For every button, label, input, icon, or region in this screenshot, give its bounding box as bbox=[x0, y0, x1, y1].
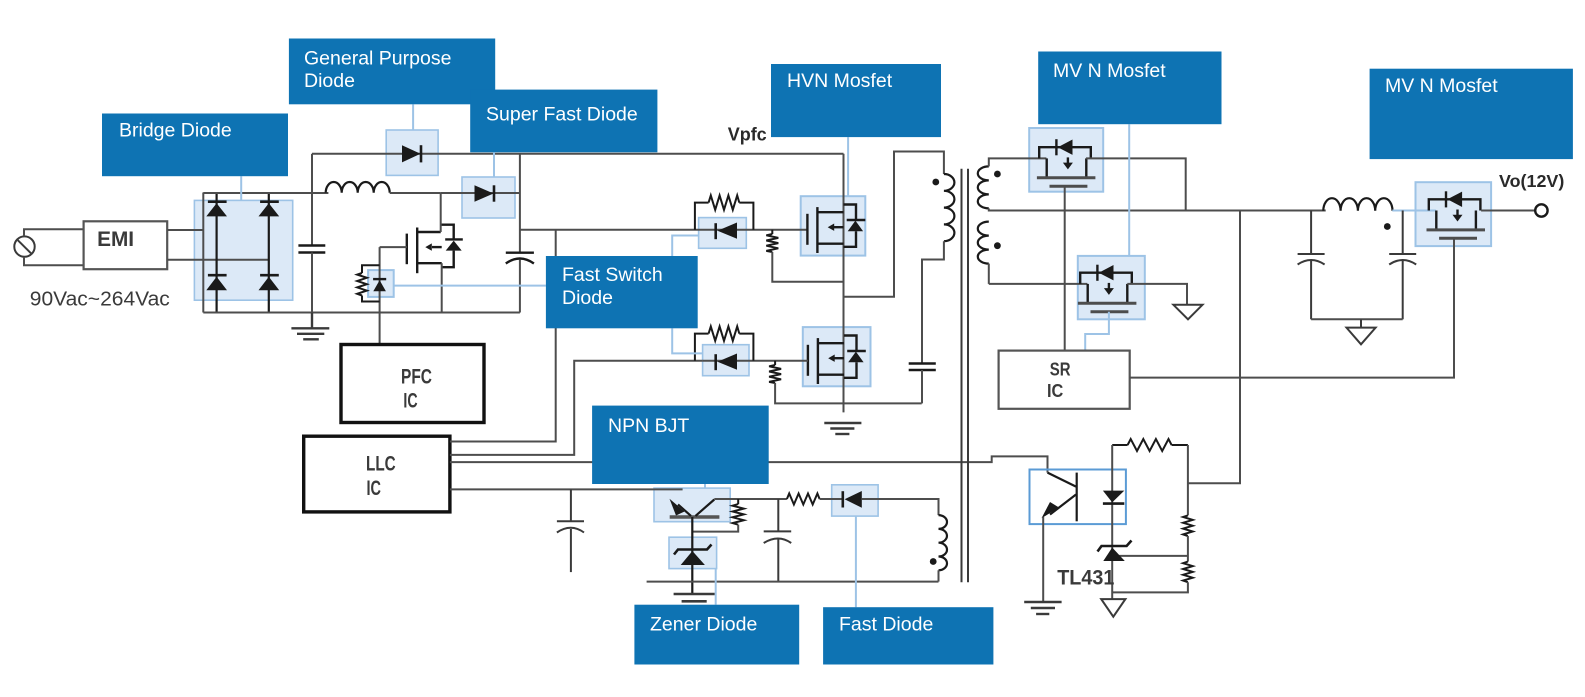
svg-text:Fast Diode: Fast Diode bbox=[839, 614, 933, 636]
bridge leg 1 wire bbox=[216, 193, 218, 313]
TL431 shunt regulator U3 bbox=[1098, 541, 1132, 562]
base-emitter resistor return wire bbox=[692, 525, 738, 532]
leader general purpose diode bbox=[412, 104, 414, 130]
TL431 reference wire bbox=[1119, 555, 1188, 557]
svg-text:PFC: PFC bbox=[401, 364, 432, 388]
callout label Super Fast Diode bbox=[470, 90, 657, 153]
leader zener diode bbox=[715, 569, 717, 605]
super fast diode highlight box bbox=[462, 177, 515, 218]
primary polarity dot bbox=[932, 179, 939, 186]
TL431 ground triangle bbox=[1101, 599, 1125, 617]
SR mosfet Q3 bbox=[1037, 139, 1096, 186]
bridge diode D3 bbox=[206, 275, 227, 290]
SR controller IC box bbox=[999, 351, 1130, 409]
callout label Fast Switch Diode bbox=[546, 256, 698, 328]
callout label Zener Diode bbox=[634, 605, 799, 665]
wire inductor to boost node bbox=[390, 192, 441, 194]
bottom return rail bbox=[203, 312, 520, 314]
output terminal circle bbox=[1535, 204, 1547, 216]
transformer primary winding bbox=[944, 174, 954, 241]
filter cap C1 lower wire bbox=[311, 253, 313, 313]
wire divider bottom to TL431 anode bbox=[1112, 582, 1188, 592]
svg-text:Diode: Diode bbox=[562, 287, 613, 309]
leader fast diode bbox=[855, 516, 857, 607]
svg-text:LLC: LLC bbox=[366, 451, 396, 475]
callout label General Purpose Diode bbox=[289, 39, 495, 105]
NPN collector wire bbox=[714, 498, 787, 500]
SR mosfet Q4 to ground wire bbox=[1127, 284, 1187, 305]
callout label HVN Mosfet bbox=[771, 64, 941, 137]
wire switch node to primary top bbox=[844, 152, 944, 297]
resonant capacitor C4 bbox=[909, 364, 936, 371]
SR mosfet Q3 highlight box bbox=[1029, 128, 1103, 192]
svg-text:Super Fast Diode: Super Fast Diode bbox=[486, 104, 638, 126]
svg-text:NPN BJT: NPN BJT bbox=[608, 415, 689, 437]
zener ground symbol bbox=[674, 594, 715, 601]
secondary lower dot bbox=[994, 242, 1001, 249]
high side gate wire bbox=[520, 229, 808, 231]
optocoupler ground symbol bbox=[1024, 602, 1061, 614]
super fast diode D6 bbox=[475, 185, 495, 201]
svg-text:TL431: TL431 bbox=[1057, 567, 1114, 590]
svg-text:MV N Mosfet: MV N Mosfet bbox=[1385, 75, 1498, 97]
bridge diode D2 bbox=[259, 202, 280, 217]
pfc gate diode highlight box bbox=[368, 270, 394, 297]
LLC controller IC box bbox=[304, 436, 450, 512]
wire primary bottom to resonant cap bbox=[922, 241, 944, 362]
bypass top rail to Vpfc bbox=[312, 153, 844, 155]
callout label MV N Mosfet left bbox=[1038, 52, 1221, 125]
output filter cap C6 bbox=[1389, 211, 1416, 320]
feedback divider wire bbox=[1187, 445, 1189, 515]
resonant capacitor lower wire bbox=[921, 370, 923, 403]
output inductor L2 bbox=[1323, 198, 1392, 211]
general purpose diode D5 bbox=[402, 145, 421, 162]
leader fast switch diode to pfc gate diode bbox=[394, 285, 546, 287]
bridge outer left wire bbox=[202, 193, 204, 313]
callout label Fast Diode bbox=[823, 607, 993, 664]
base-emitter resistor R10 bbox=[733, 499, 744, 525]
HVN mosfet Q2 bbox=[808, 336, 866, 385]
svg-text:IC: IC bbox=[1047, 381, 1063, 401]
high side gate return wire bbox=[772, 252, 843, 282]
leader HVN mosfet bbox=[847, 137, 849, 196]
PFC boost inductor L1 bbox=[326, 182, 390, 193]
general purpose diode highlight box bbox=[386, 130, 438, 175]
svg-text:90Vac~264Vac: 90Vac~264Vac bbox=[30, 289, 170, 311]
fast switch diode D8 bypass resistor R2 bbox=[695, 195, 754, 229]
LLC pin capacitor C3 bbox=[557, 489, 584, 572]
optocoupler LED wire bbox=[1111, 445, 1113, 599]
secondary bottom wire to SR mosfet Q4 bbox=[989, 283, 1088, 285]
secondary winding lower bbox=[978, 222, 989, 264]
fast switch diode D8 bbox=[716, 223, 737, 240]
leader fast switch diode lower bbox=[672, 328, 702, 353]
HVN mosfet Q1 bbox=[807, 205, 865, 254]
PFC mosfet drain wire bbox=[440, 193, 442, 232]
wire EMI to bridge top bbox=[167, 229, 203, 231]
aux winding bbox=[939, 515, 948, 570]
wire boost node to super fast diode to bulk node bbox=[441, 192, 520, 194]
fast switch diode D9 bbox=[716, 354, 737, 371]
feedback divider resistor R8 bbox=[1183, 562, 1193, 583]
bridge diode D4 bbox=[259, 275, 280, 290]
NPN BJT Q7 bbox=[670, 499, 720, 517]
LLC wire 2 to low side gate bbox=[450, 361, 703, 455]
svg-text:MV N Mosfet: MV N Mosfet bbox=[1053, 60, 1166, 82]
PFC gate resistor R1 bbox=[357, 265, 379, 301]
wire AC to EMI bottom bbox=[24, 257, 84, 265]
optocoupler emitter wire bbox=[1042, 517, 1044, 601]
optocoupler LED diode bbox=[1103, 491, 1124, 504]
output mosfet Q5 highlight box bbox=[1416, 182, 1492, 246]
LLC wire 1 to high side gate bbox=[450, 230, 556, 442]
svg-text:Diode: Diode bbox=[304, 70, 355, 92]
output mosfet Q5 bbox=[1427, 191, 1486, 238]
SR mosfet Q3 output wire bbox=[1086, 158, 1186, 210]
SR mosfet Q3 gate wire to SR IC bbox=[1064, 186, 1066, 350]
SR mosfet Q4 bbox=[1078, 265, 1137, 312]
PFC controller IC box bbox=[341, 345, 484, 423]
secondary top wire to SR mosfet Q3 bbox=[989, 158, 1047, 166]
PFC mosfet Q6 bbox=[407, 225, 463, 274]
snubber capacitor C7 bbox=[764, 499, 792, 582]
svg-text:Bridge Diode: Bridge Diode bbox=[119, 120, 232, 142]
svg-text:IC: IC bbox=[367, 476, 382, 500]
leader fast switch diode upper bbox=[672, 236, 698, 257]
half bridge ground symbol bbox=[824, 423, 861, 434]
svg-text:SR: SR bbox=[1050, 360, 1071, 380]
secondary winding upper bbox=[978, 166, 989, 208]
rectified bus top wire with PFC inductor position bbox=[203, 192, 328, 194]
callout label NPN BJT bbox=[592, 406, 769, 484]
half bridge vertical wire bbox=[843, 154, 845, 413]
HVN mosfet Q1 highlight box bbox=[801, 196, 866, 255]
svg-text:IC: IC bbox=[403, 389, 417, 413]
leader super fast diode bbox=[493, 152, 495, 177]
aux return rail bbox=[647, 581, 939, 583]
fast diode D10 bbox=[843, 491, 862, 508]
filter cap C1 bbox=[298, 246, 325, 253]
optocoupler box U2 bbox=[1030, 470, 1126, 525]
low side gate wire bbox=[703, 360, 808, 362]
svg-text:Zener Diode: Zener Diode bbox=[650, 614, 757, 636]
LLC wire 4 to NPN bbox=[450, 488, 683, 490]
wire inductor to output mosfet (blue) bbox=[1392, 210, 1436, 212]
low side gate return wire bbox=[775, 383, 922, 403]
wire fast diode to aux winding bbox=[862, 499, 939, 515]
leader bridge diode bbox=[240, 176, 242, 200]
svg-text:EMI: EMI bbox=[97, 228, 134, 251]
bridge diode D1 bbox=[206, 202, 227, 217]
primary ground symbol bbox=[291, 313, 329, 340]
fast diode highlight box bbox=[832, 485, 878, 516]
output wire to terminal bbox=[1481, 210, 1535, 212]
bulk capacitor C2 bbox=[506, 253, 534, 264]
feedback divider resistor R7 bbox=[1183, 515, 1193, 536]
output positive rail from center tap bbox=[989, 210, 1326, 212]
svg-text:Vpfc: Vpfc bbox=[728, 125, 767, 145]
output inductor dot bbox=[1384, 223, 1391, 230]
fast switch diode D2 highlight box bbox=[703, 345, 749, 376]
output filter cap C5 bbox=[1298, 211, 1325, 320]
HVN mosfet Q2 highlight box bbox=[803, 327, 871, 386]
feedback upper resistor R6 bbox=[1112, 439, 1188, 451]
wire divider mid bbox=[1187, 536, 1189, 562]
NPN base to zener wire bbox=[691, 517, 693, 594]
secondary center tap wires bbox=[988, 208, 990, 211]
svg-text:Fast Switch: Fast Switch bbox=[562, 264, 663, 286]
PFC gate wire to PFC IC bbox=[380, 247, 407, 344]
leader MV N mosfet left bbox=[1128, 124, 1130, 256]
optocoupler phototransistor bbox=[1042, 473, 1077, 522]
output filter bottom rail bbox=[1311, 318, 1403, 320]
output filter ground triangle bbox=[1347, 319, 1376, 344]
PFC mosfet source wire bbox=[441, 263, 443, 312]
LLC feedback wire to optocoupler bbox=[450, 456, 1048, 472]
transformer core bbox=[962, 169, 969, 583]
wire EMI to bridge middle bbox=[167, 259, 269, 261]
SR mosfet Q4 highlight box bbox=[1078, 256, 1145, 319]
high side gate resistor R3 bbox=[766, 230, 778, 252]
secondary upper dot bbox=[994, 171, 1001, 178]
bulk capacitor lower wire bbox=[519, 260, 521, 313]
callout label Bridge Diode bbox=[102, 114, 288, 177]
fast switch diode D9 bypass resistor R4 bbox=[695, 326, 754, 360]
EMI filter box bbox=[84, 221, 168, 269]
output rail down wire bbox=[1188, 211, 1240, 484]
zener diode highlight box bbox=[669, 537, 717, 568]
callout label MV N Mosfet right bbox=[1370, 69, 1573, 159]
wire AC to EMI top bbox=[24, 229, 84, 236]
secondary ground triangle bbox=[1173, 305, 1202, 320]
aux winding bottom wire bbox=[938, 570, 940, 581]
AC source bbox=[14, 236, 34, 256]
bridge rectifier highlight box bbox=[194, 200, 292, 300]
bulk node vertical wire bbox=[519, 154, 521, 252]
filter cap C1 branch wire bbox=[311, 154, 313, 245]
NPN BJT highlight box bbox=[654, 488, 730, 522]
svg-text:Vo(12V): Vo(12V) bbox=[1499, 171, 1564, 191]
fast switch diode D1 highlight box bbox=[699, 218, 747, 249]
SR IC drive wire to output mosfet gate bbox=[1130, 239, 1454, 378]
SR mosfet Q4 gate wire (blue) bbox=[1085, 312, 1109, 351]
svg-text:HVN Mosfet: HVN Mosfet bbox=[787, 70, 893, 92]
wire resistor to fast diode bbox=[820, 498, 843, 500]
svg-text:General Purpose: General Purpose bbox=[304, 48, 451, 70]
bridge leg 2 wire bbox=[268, 193, 270, 313]
low side gate resistor R5 bbox=[769, 361, 781, 383]
leader NPN BJT bbox=[704, 484, 706, 488]
aux winding dot bbox=[930, 558, 937, 565]
zener diode D11 bbox=[674, 545, 712, 566]
collector resistor R9 bbox=[787, 494, 820, 505]
PFC gate zener diode D7 bbox=[373, 279, 386, 291]
